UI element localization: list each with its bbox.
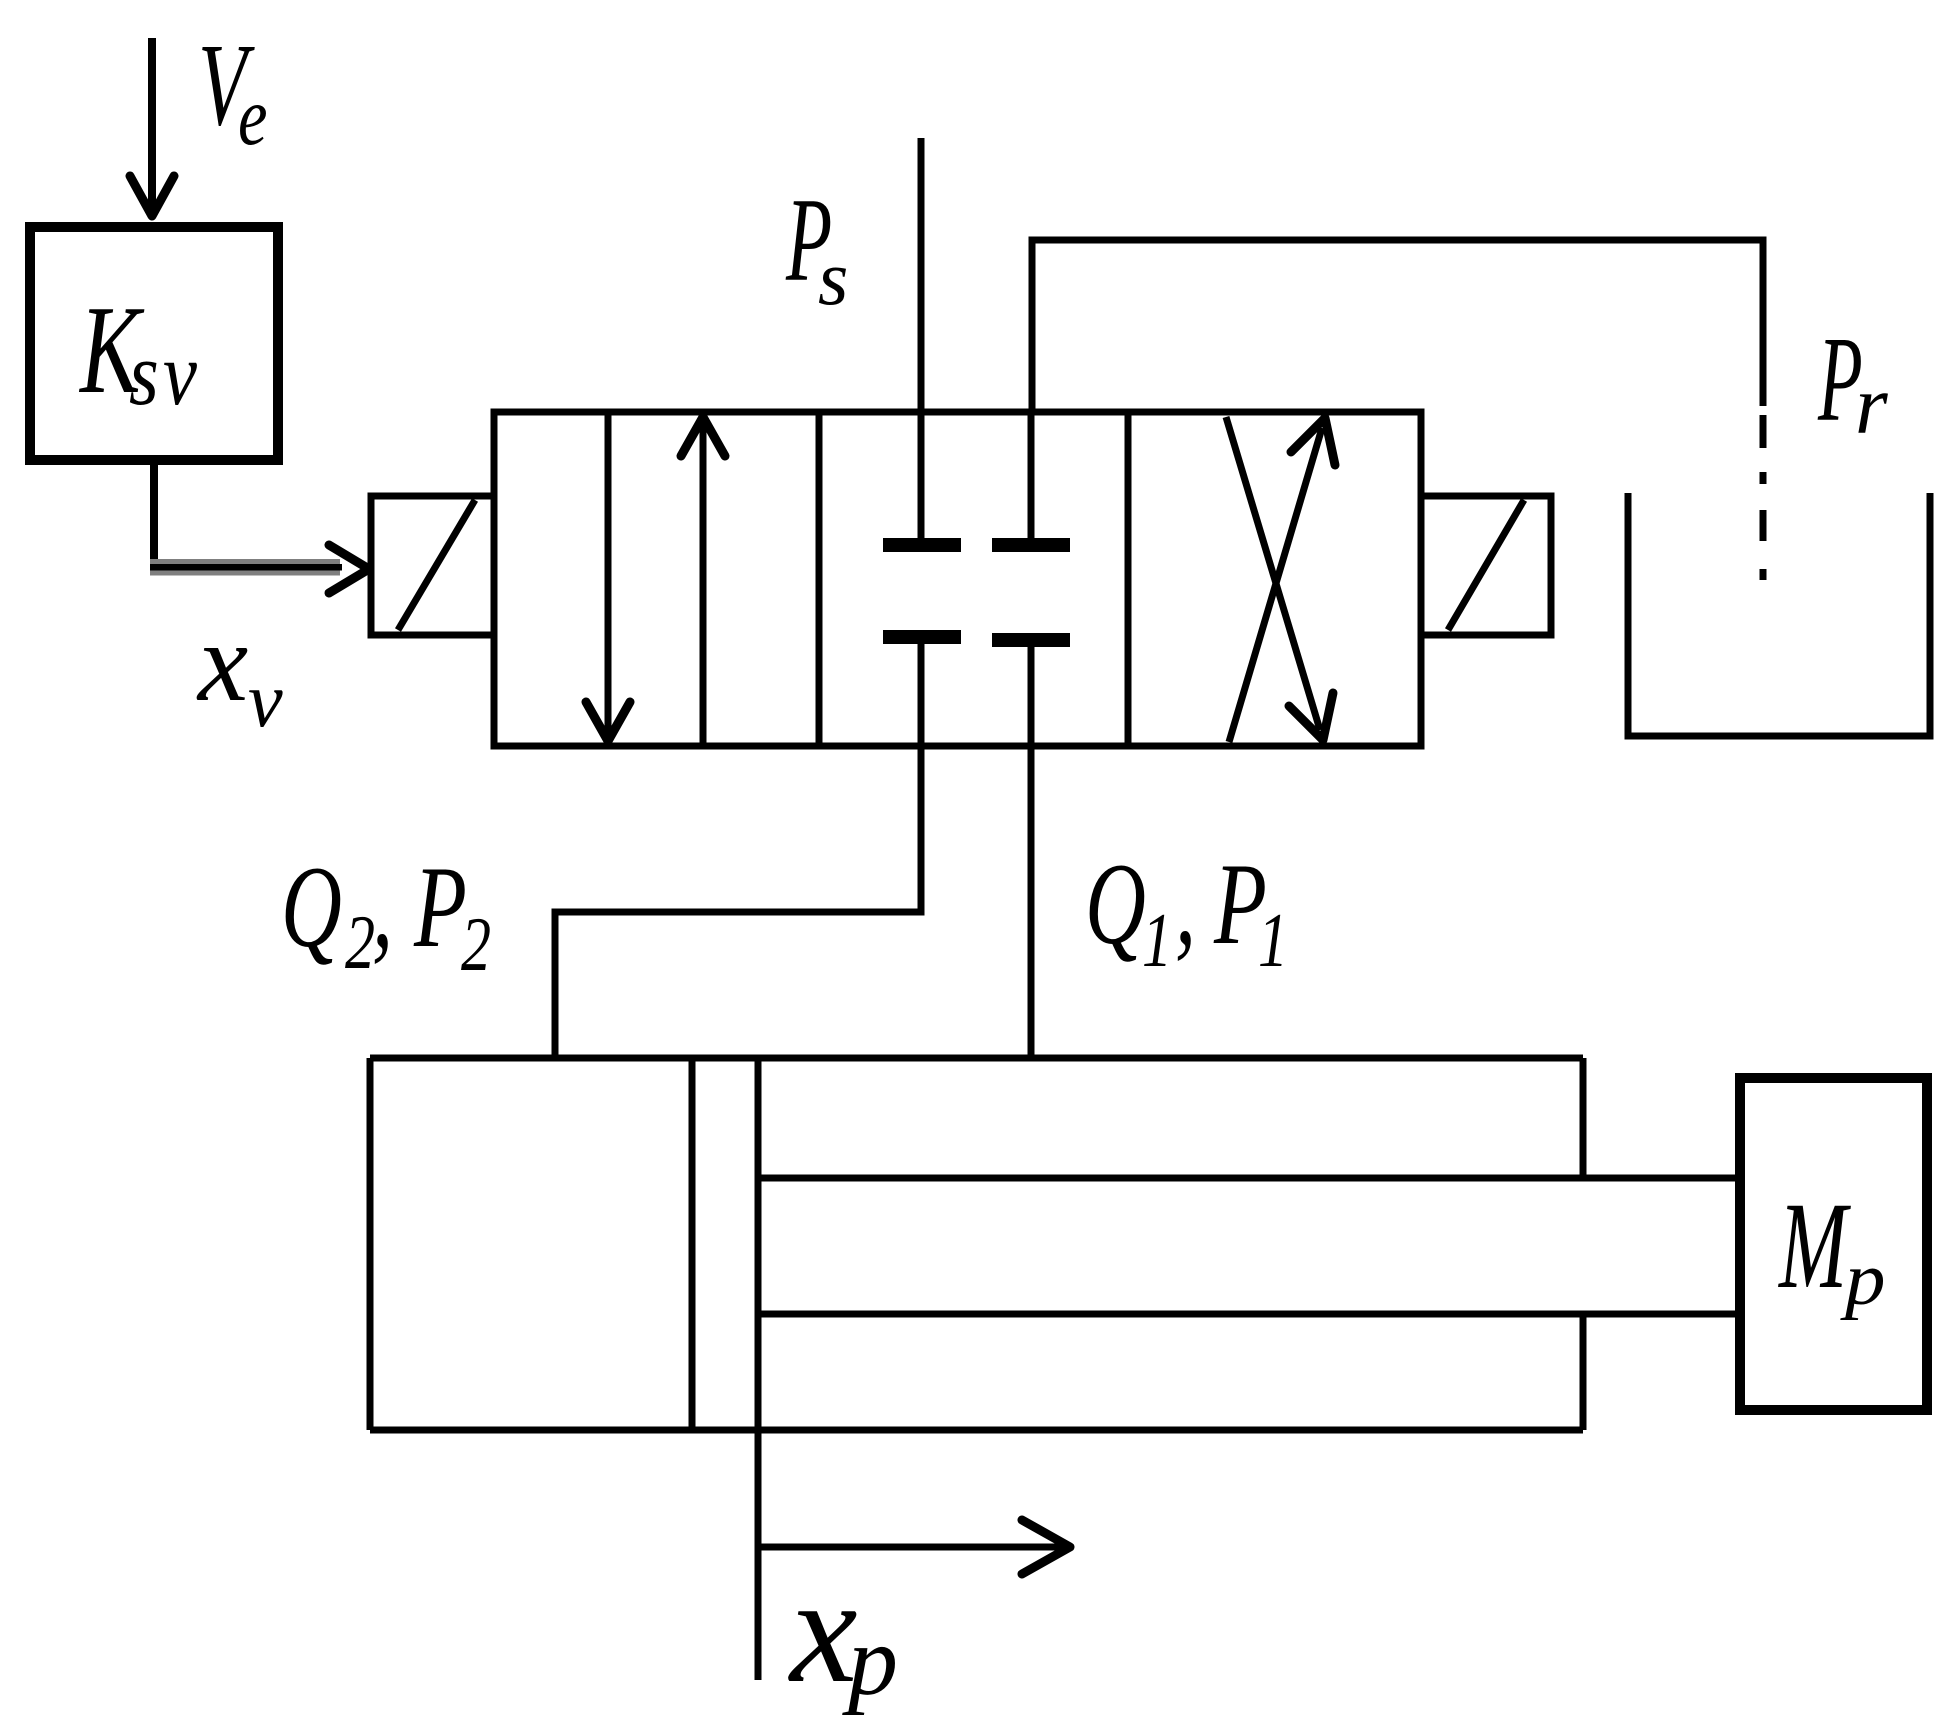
svg-text:1: 1 [1142, 897, 1172, 983]
return line Pr (loop over valve) [1032, 240, 1763, 412]
svg-text:1: 1 [1258, 897, 1288, 983]
svg-text:v: v [163, 325, 198, 424]
xp displacement arrow [758, 1520, 1070, 1574]
svg-text:Q: Q [1085, 840, 1146, 970]
label xv [196, 600, 283, 743]
svg-text:2: 2 [461, 901, 491, 987]
label Pr [1817, 311, 1888, 452]
svg-text:P: P [413, 843, 467, 973]
piston rod [758, 1178, 1740, 1314]
arrowhead xv input [329, 545, 369, 593]
line Q2 P2 (valve port B to cylinder left chamber) [555, 746, 921, 1058]
piston [692, 1058, 758, 1430]
label Q1,P1 [1085, 840, 1288, 983]
wire Ksv output (vertical) [150, 460, 158, 572]
crossed flow arrow up-right (right cell) [1229, 418, 1335, 742]
svg-text:Q: Q [281, 843, 342, 973]
valve body (4/3 directional valve) [494, 412, 1421, 746]
crossed flow arrow down-right (right cell) [1226, 417, 1333, 740]
valve cell divider 2 [1125, 412, 1132, 746]
blocked port stub A (center cell bottom-right) [992, 633, 1070, 746]
svg-text:x: x [196, 600, 248, 725]
flow arrow up (left cell) [681, 417, 725, 746]
xp reference line [755, 1430, 762, 1680]
amplifier block Ksv [30, 227, 278, 460]
label Ps [785, 174, 848, 321]
flow arrow down (left cell) [586, 412, 630, 741]
return line Pr dash-dot into tank [1760, 415, 1767, 580]
svg-text:s: s [129, 325, 159, 424]
svg-text:,: , [372, 843, 393, 973]
supply line Ps [918, 138, 925, 412]
svg-text:v: v [248, 656, 283, 743]
solenoid right [1421, 496, 1551, 635]
label xp [788, 1546, 898, 1716]
svg-text:,: , [1175, 840, 1196, 970]
svg-text:s: s [818, 234, 848, 321]
svg-text:p: p [1840, 1237, 1886, 1321]
wire xv input (horizontal, gray highlight) [150, 559, 342, 576]
line Q1 P1 (valve port A to cylinder right chamber) [1028, 746, 1035, 1058]
blocked port stub B (center cell bottom-left) [883, 630, 961, 746]
cylinder barrel [370, 1058, 1583, 1430]
label Q2,P2 [281, 843, 491, 987]
svg-text:2: 2 [345, 899, 375, 985]
label Mp [1777, 1176, 1885, 1320]
label Ksv [78, 280, 197, 425]
tank [1628, 493, 1930, 736]
blocked port stub P supply (center cell top-left) [883, 412, 961, 552]
label Ve [198, 19, 267, 163]
mass block Mp [1740, 1078, 1927, 1410]
blocked port stub R return (center cell top-right) [992, 412, 1070, 552]
solenoid left [371, 496, 494, 635]
svg-text:r: r [1855, 359, 1888, 452]
svg-text:p: p [842, 1605, 898, 1716]
svg-text:M: M [1777, 1176, 1851, 1314]
valve cell divider 1 [816, 412, 823, 746]
input arrow Ve [130, 38, 174, 216]
svg-text:e: e [238, 71, 267, 163]
